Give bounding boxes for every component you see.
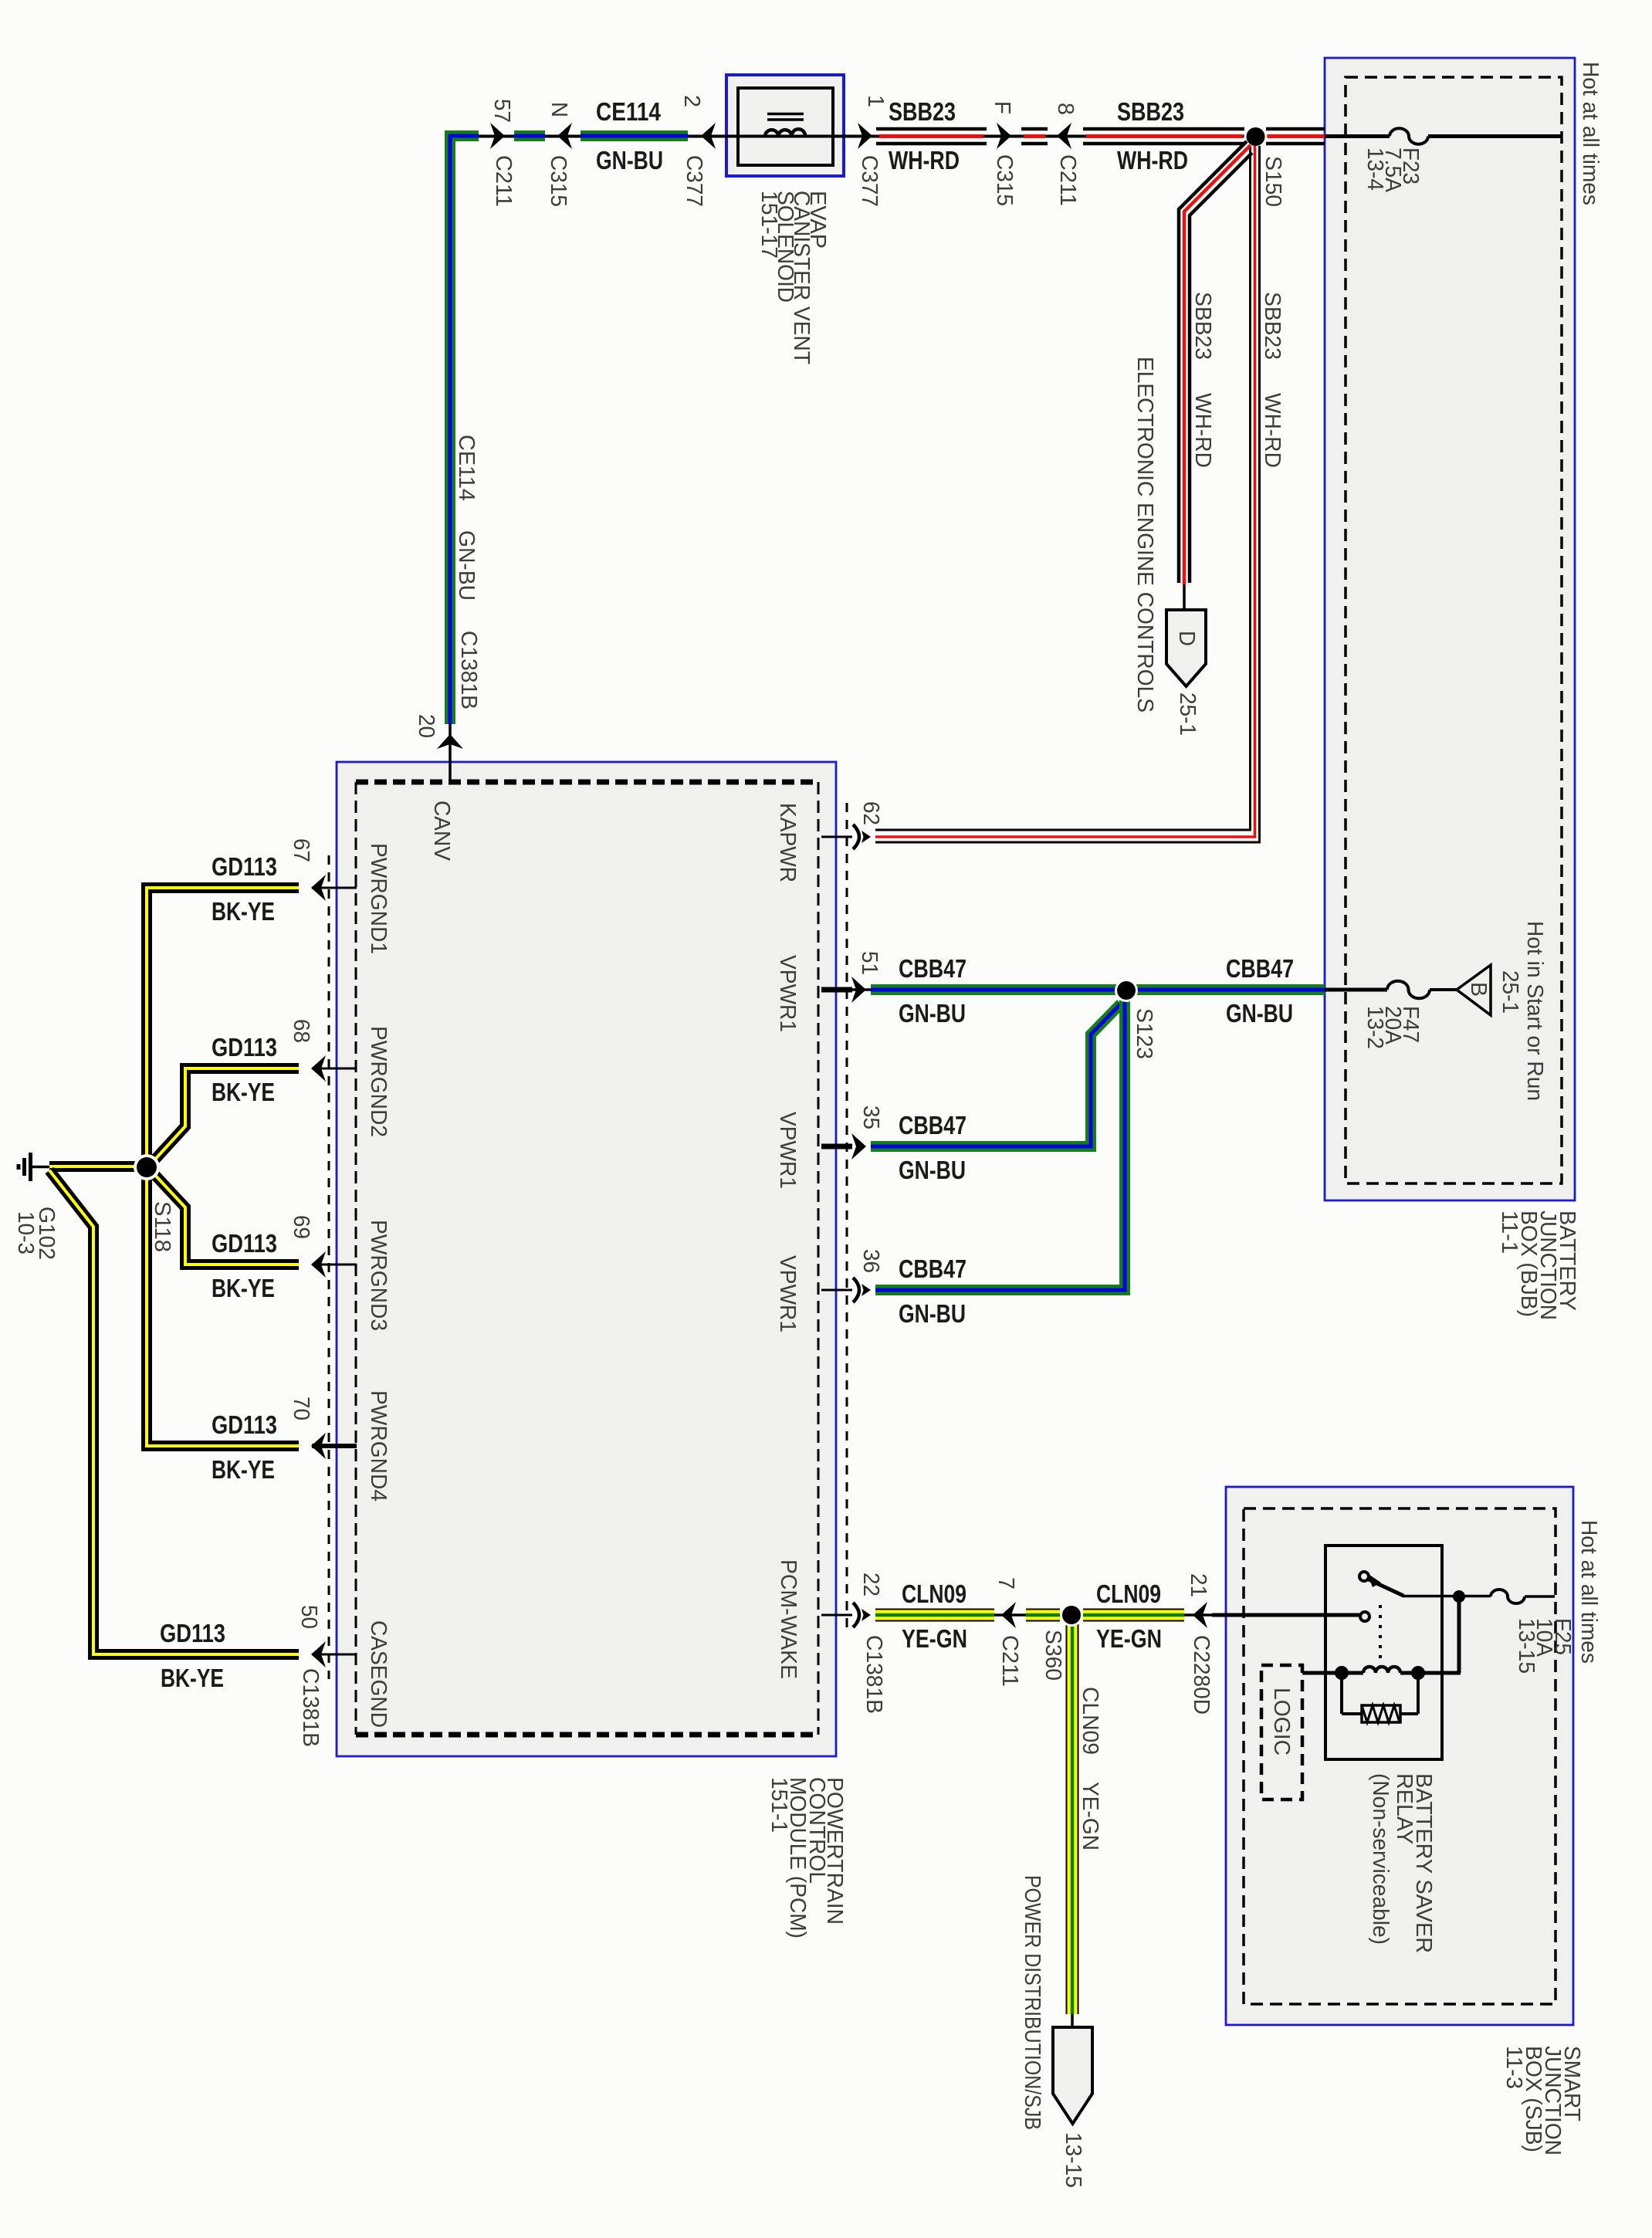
label C1381B (rotated) xyxy=(456,631,481,709)
svg-text:KAPWR: KAPWR xyxy=(775,803,800,882)
label F47 (rotated) xyxy=(1398,1006,1423,1043)
svg-text:SBB23: SBB23 xyxy=(889,97,956,126)
svg-text:C377: C377 xyxy=(857,155,882,207)
label S123 (rotated) xyxy=(1132,1008,1156,1059)
label 57 (rotated) xyxy=(489,99,514,123)
svg-text:10-3: 10-3 xyxy=(13,1211,38,1254)
relay coil wire from LOGIC xyxy=(1302,1671,1461,1675)
relay switch common contact xyxy=(1359,1572,1403,1596)
PCM pin 35 stub xyxy=(821,1144,852,1149)
label SBB23 (rotated) xyxy=(1190,292,1215,360)
svg-text:PWRGND1: PWRGND1 xyxy=(366,843,391,954)
PCM pin 22 connector symbol xyxy=(853,1603,871,1627)
svg-text:62: 62 xyxy=(858,801,883,825)
label GD113 xyxy=(212,1229,277,1258)
svg-text:7: 7 xyxy=(994,1577,1018,1590)
svg-text:CBB47: CBB47 xyxy=(1226,954,1294,983)
label CBB47 xyxy=(899,1111,966,1139)
label S360 (rotated) xyxy=(1041,1630,1065,1681)
svg-text:67: 67 xyxy=(289,838,313,862)
svg-text:D: D xyxy=(1174,631,1199,646)
PCM pin 70 stub xyxy=(312,1444,357,1448)
label S150 (rotated) xyxy=(1261,156,1285,207)
label EVAP (rotated) xyxy=(805,191,830,249)
label BK-YE xyxy=(161,1664,224,1692)
svg-text:CBB47: CBB47 xyxy=(899,1254,966,1283)
svg-text:C377: C377 xyxy=(682,155,706,207)
label GD113 xyxy=(212,852,277,881)
connector C211 pin 8 arrow xyxy=(1057,123,1071,149)
svg-text:70: 70 xyxy=(289,1397,313,1420)
powertrain control module (PCM) outline xyxy=(337,762,836,1756)
splice S123 xyxy=(1115,979,1138,1002)
label 10A (rotated) xyxy=(1532,1618,1556,1657)
label YE-GN xyxy=(1096,1624,1162,1653)
label C315 (rotated) xyxy=(992,154,1017,206)
PCM pin 20 arrow xyxy=(437,734,463,749)
svg-text:GD113: GD113 xyxy=(212,1033,277,1061)
svg-text:13-2: 13-2 xyxy=(1363,1006,1387,1049)
label C1381B (rotated) xyxy=(862,1635,886,1714)
svg-text:GN-BU: GN-BU xyxy=(1226,999,1293,1028)
svg-text:GD113: GD113 xyxy=(212,1229,277,1258)
label BK-YE xyxy=(212,897,275,926)
svg-text:2: 2 xyxy=(679,95,704,107)
label F25 (rotated) xyxy=(1550,1618,1575,1655)
label VPWR1 (rotated) xyxy=(775,1255,800,1332)
svg-text:CASEGND: CASEGND xyxy=(366,1620,391,1728)
PCM pin 50 arrow xyxy=(311,1641,326,1667)
label Hot at all times (rotated) xyxy=(1576,1520,1601,1664)
label SBB23 xyxy=(889,97,956,126)
svg-text:CLN09: CLN09 xyxy=(902,1579,966,1608)
solenoid coil L1 xyxy=(765,114,805,137)
wire SBB23 WH-RD C377 to C315 xyxy=(876,129,987,144)
label SBB23 xyxy=(1117,97,1184,126)
svg-text:GN-BU: GN-BU xyxy=(454,530,479,601)
ground G102 symbol xyxy=(19,1153,49,1181)
label 35 (rotated) xyxy=(858,1105,883,1129)
svg-text:8: 8 xyxy=(1053,103,1078,115)
wire SBB23 WH-RD C211 to S150 xyxy=(1083,129,1244,144)
relay resistor xyxy=(1342,1673,1418,1722)
svg-text:36: 36 xyxy=(858,1249,883,1273)
svg-text:BK-YE: BK-YE xyxy=(212,1274,275,1302)
label PWRGND3 (rotated) xyxy=(366,1220,391,1331)
svg-text:PCM-WAKE: PCM-WAKE xyxy=(776,1559,801,1679)
label CLN09 (rotated) xyxy=(1078,1687,1102,1755)
label 22 (rotated) xyxy=(858,1573,883,1596)
svg-text:151-1: 151-1 xyxy=(767,1777,791,1833)
svg-text:N: N xyxy=(547,102,571,117)
wire BJB F47 feed xyxy=(1325,988,1458,992)
svg-text:POWER DISTRIBUTION/SJB: POWER DISTRIBUTION/SJB xyxy=(1020,1875,1044,2130)
label 36 (rotated) xyxy=(858,1249,883,1273)
svg-text:GN-BU: GN-BU xyxy=(596,146,663,174)
battery junction box (BJB) outline xyxy=(1325,58,1575,1200)
connector C377 pin 2 arrow xyxy=(701,123,716,149)
svg-text:VPWR1: VPWR1 xyxy=(775,1255,800,1332)
label C315 (rotated) xyxy=(546,155,570,207)
svg-text:Hot at all times: Hot at all times xyxy=(1578,62,1603,205)
label VPWR1 (rotated) xyxy=(775,1112,800,1189)
svg-text:CLN09: CLN09 xyxy=(1078,1687,1102,1755)
label 13-4 (rotated) xyxy=(1363,147,1387,191)
label CBB47 xyxy=(1226,954,1294,983)
relay normally-open contact xyxy=(1360,1612,1369,1621)
wire SJB battery saver relay to pin 21 xyxy=(1212,1613,1360,1617)
svg-text:57: 57 xyxy=(489,99,514,123)
wire SBB23 WH-RD S150 to PCM KAPWR pin 62 xyxy=(875,146,1260,842)
label 8 (rotated) xyxy=(1053,103,1078,115)
label 20A (rotated) xyxy=(1380,1006,1405,1045)
wire CLN09 YE-GN C211 to S360 xyxy=(1026,1609,1060,1622)
relay coil feed vertical xyxy=(1457,1596,1461,1673)
svg-text:BK-YE: BK-YE xyxy=(212,897,275,926)
label 69 (rotated) xyxy=(289,1215,313,1239)
label C1381B (rotated) xyxy=(298,1668,323,1747)
label C377 (rotated) xyxy=(682,155,706,207)
label RELAY (rotated) xyxy=(1392,1773,1417,1844)
PCM pin 36 stub xyxy=(821,1289,852,1292)
label GN-BU xyxy=(1226,999,1293,1028)
svg-text:CE114: CE114 xyxy=(596,97,662,126)
svg-text:(Non-serviceable): (Non-serviceable) xyxy=(1368,1773,1393,1945)
label YE-GN (rotated) xyxy=(1078,1782,1102,1850)
svg-text:YE-GN: YE-GN xyxy=(1078,1782,1102,1850)
label (Non-serviceable) (rotated) xyxy=(1368,1773,1393,1945)
label 67 (rotated) xyxy=(289,838,313,862)
label CANISTER VENT (rotated) xyxy=(789,191,814,364)
PCM pin 62 connector symbol xyxy=(853,824,871,849)
svg-text:S123: S123 xyxy=(1132,1008,1156,1059)
PCM pin 51 stub xyxy=(821,987,852,993)
svg-text:GN-BU: GN-BU xyxy=(899,1156,966,1184)
label GN-BU xyxy=(899,1299,966,1328)
svg-text:CE114: CE114 xyxy=(454,435,479,501)
svg-text:68: 68 xyxy=(289,1019,313,1043)
connector C315 pin N arrow xyxy=(557,123,572,149)
svg-text:21: 21 xyxy=(1186,1573,1210,1597)
label GD113 xyxy=(212,1410,277,1439)
svg-text:CLN09: CLN09 xyxy=(1096,1579,1161,1608)
PCM connector dashed line left C1381B xyxy=(328,855,330,1679)
label N (rotated) xyxy=(547,102,571,117)
label GN-BU (rotated) xyxy=(454,530,479,601)
label S118 (rotated) xyxy=(150,1201,174,1252)
wire SBB23 WH-RD S150 to BJB xyxy=(1266,129,1325,144)
svg-text:1: 1 xyxy=(863,95,888,107)
label 20 (rotated) xyxy=(414,714,438,738)
label D (rotated) xyxy=(1174,631,1199,646)
svg-text:C2280D: C2280D xyxy=(1189,1635,1214,1715)
PCM pin 36 connector symbol xyxy=(853,1278,871,1302)
svg-text:25-1: 25-1 xyxy=(1175,692,1200,736)
svg-text:CANV: CANV xyxy=(429,801,454,862)
svg-text:11-3: 11-3 xyxy=(1501,2046,1526,2089)
label CBB47 xyxy=(899,954,966,983)
label LOGIC (rotated) xyxy=(1269,1688,1294,1756)
svg-text:GN-BU: GN-BU xyxy=(899,999,966,1028)
label 11-1 (rotated) xyxy=(1497,1210,1522,1254)
relay coil right dot xyxy=(1411,1666,1425,1680)
svg-text:B: B xyxy=(1466,982,1491,997)
label Hot at all times (rotated) xyxy=(1578,62,1603,205)
label PWRGND2 (rotated) xyxy=(366,1026,391,1137)
label SMART (rotated) xyxy=(1559,2046,1584,2121)
svg-text:BK-YE: BK-YE xyxy=(212,1078,275,1106)
svg-text:20: 20 xyxy=(414,714,438,738)
svg-text:C1381B: C1381B xyxy=(298,1668,323,1747)
svg-text:13-15: 13-15 xyxy=(1061,2132,1085,2188)
label GN-BU xyxy=(899,1156,966,1184)
svg-text:S118: S118 xyxy=(150,1201,174,1252)
label 2 (rotated) xyxy=(679,95,704,107)
label 13-15 (rotated) xyxy=(1514,1618,1539,1674)
EVAP canister vent solenoid box xyxy=(726,75,844,176)
svg-text:51: 51 xyxy=(857,951,882,975)
PCM pin 69 arrow xyxy=(311,1251,326,1278)
label PWRGND4 (rotated) xyxy=(366,1390,391,1502)
PCM connector dashed line right C1381B xyxy=(846,803,848,1630)
wire CBB47 GN-BU pin 51 to BJB via S123 xyxy=(871,984,1325,995)
label 151-17 (rotated) xyxy=(757,191,781,259)
label 13-2 (rotated) xyxy=(1363,1006,1387,1049)
label BOX (BJB) (rotated) xyxy=(1516,1210,1541,1317)
svg-text:S360: S360 xyxy=(1041,1630,1065,1681)
svg-text:CBB47: CBB47 xyxy=(899,954,966,983)
label WH-RD xyxy=(1117,146,1188,174)
PCM pin 70 arrow xyxy=(311,1433,326,1459)
label Hot in Start or Run (rotated) xyxy=(1522,921,1547,1101)
label JUNCTION (rotated) xyxy=(1535,1210,1560,1320)
label 62 (rotated) xyxy=(858,801,883,825)
connector C211 pin 7 arrow xyxy=(994,1602,1026,1628)
fuse F47 20A xyxy=(1387,981,1430,999)
label C211 (rotated) xyxy=(1055,154,1080,206)
label 68 (rotated) xyxy=(289,1019,313,1043)
wire CBB47 GN-BU pin 35 to S123 xyxy=(871,1004,1121,1146)
svg-text:Hot in Start or Run: Hot in Start or Run xyxy=(1522,921,1547,1101)
svg-text:50: 50 xyxy=(296,1605,321,1629)
label CANV (rotated) xyxy=(429,801,454,862)
label F23 (rotated) xyxy=(1398,147,1423,185)
label B (rotated) xyxy=(1466,982,1491,997)
label 25-1 (rotated) xyxy=(1175,692,1200,736)
label ELECTRONIC ENGINE CONTROLS (rotated) xyxy=(1132,357,1157,713)
svg-text:GD113: GD113 xyxy=(212,852,277,881)
label BOX (SJB) (rotated) xyxy=(1521,2046,1545,2152)
PCM pin 68 arrow xyxy=(311,1055,326,1082)
label 51 (rotated) xyxy=(857,951,882,975)
svg-text:C1381B: C1381B xyxy=(862,1635,886,1714)
PCM pin 51 arrow xyxy=(851,977,866,1003)
label 70 (rotated) xyxy=(289,1397,313,1420)
fuse F25 10A xyxy=(1491,1590,1555,1603)
wire GD113 BK-YE S118 to PWRGND3 pin 69 xyxy=(152,1172,299,1265)
relay armature dotted link xyxy=(1379,1605,1382,1666)
label C2280D (rotated) xyxy=(1189,1635,1214,1715)
label BK-YE xyxy=(212,1274,275,1302)
svg-text:C1381B: C1381B xyxy=(456,631,481,709)
wire GD113 BK-YE G102 to S118 xyxy=(49,1161,143,1172)
wire SBB23 WH-RD C315 to C211 xyxy=(1021,129,1048,144)
svg-text:Hot at all times: Hot at all times xyxy=(1576,1520,1601,1664)
svg-text:LOGIC: LOGIC xyxy=(1269,1688,1294,1756)
svg-text:PWRGND3: PWRGND3 xyxy=(366,1220,391,1331)
connector C377 pin 1 arrow xyxy=(858,123,872,149)
label WH-RD (rotated) xyxy=(1260,393,1285,468)
PCM pin 67 arrow xyxy=(311,875,326,901)
relay coil left dot xyxy=(1335,1666,1349,1680)
label POWERTRAIN (rotated) xyxy=(822,1777,847,1925)
svg-text:WH-RD: WH-RD xyxy=(1117,146,1188,174)
label CONTROL (rotated) xyxy=(804,1777,829,1884)
svg-text:SBB23: SBB23 xyxy=(1260,292,1285,360)
svg-text:25-1: 25-1 xyxy=(1498,970,1522,1014)
svg-text:SBB23: SBB23 xyxy=(1117,97,1184,126)
label GD113 xyxy=(160,1619,225,1647)
svg-text:SBB23: SBB23 xyxy=(1190,292,1215,360)
label CASEGND (rotated) xyxy=(366,1620,391,1728)
PCM pin 35 arrow xyxy=(851,1133,866,1160)
label BATTERY SAVER (rotated) xyxy=(1411,1773,1436,1953)
splice S118 xyxy=(134,1154,160,1180)
label 21 (rotated) xyxy=(1186,1573,1210,1597)
label WH-RD (rotated) xyxy=(1190,393,1215,468)
label 13-15 (rotated) xyxy=(1061,2132,1085,2188)
label C211 (rotated) xyxy=(997,1635,1022,1687)
svg-text:YE-GN: YE-GN xyxy=(902,1624,967,1653)
svg-text:BK-YE: BK-YE xyxy=(212,1455,275,1484)
label 1 (rotated) xyxy=(863,95,888,107)
label GN-BU xyxy=(596,146,663,174)
wire SBB23 WH-RD S150 to electronic engine controls xyxy=(1179,141,1252,611)
label MODULE (PCM) (rotated) xyxy=(785,1777,810,1938)
svg-text:C211: C211 xyxy=(1055,154,1080,206)
wire GD113 BK-YE S118 to PWRGND2 pin 68 xyxy=(152,1068,299,1163)
label CLN09 xyxy=(902,1579,966,1608)
off-page connector D to 25-1 xyxy=(1166,610,1206,686)
wire CLN09 YE-GN pin 22 to C211 xyxy=(875,1609,994,1622)
label 50 (rotated) xyxy=(296,1605,321,1629)
battery saver relay box xyxy=(1325,1546,1442,1759)
label BK-YE xyxy=(212,1078,275,1106)
svg-text:RELAY: RELAY xyxy=(1392,1773,1417,1844)
svg-text:35: 35 xyxy=(858,1105,883,1129)
svg-text:WH-RD: WH-RD xyxy=(1190,393,1215,468)
wire CE114 GN-BU between C211 and C315 xyxy=(514,130,545,141)
wire BJB F23 feed xyxy=(1325,134,1562,138)
label GD113 xyxy=(212,1033,277,1061)
label SOLENOID (rotated) xyxy=(773,191,797,303)
svg-text:F: F xyxy=(990,101,1014,114)
PCM pin 69 stub xyxy=(312,1264,357,1266)
svg-text:YE-GN: YE-GN xyxy=(1096,1624,1162,1653)
wire CE114 GN-BU from C1381B to C211 xyxy=(450,136,479,724)
relay switch junction dot xyxy=(1453,1590,1465,1603)
label C377 (rotated) xyxy=(857,155,882,207)
LOGIC box xyxy=(1261,1665,1302,1800)
wire CE114 pin 20 stub xyxy=(449,724,452,782)
label CE114 xyxy=(596,97,662,126)
wire CLN09 YE-GN S360 to C2280D xyxy=(1083,1609,1184,1622)
off-page connector power distribution 13-15 xyxy=(1053,2027,1092,2124)
label SBB23 (rotated) xyxy=(1260,292,1285,360)
wire CLN09 YE-GN S360 to power distribution xyxy=(1066,1624,1079,2029)
PCM pin 22 stub xyxy=(821,1614,852,1617)
label CBB47 xyxy=(899,1254,966,1283)
label PCM-WAKE (rotated) xyxy=(776,1559,801,1679)
connector C315 pin F arrow xyxy=(997,123,1011,149)
svg-text:22: 22 xyxy=(858,1573,883,1596)
label 25-1 (rotated) xyxy=(1498,970,1522,1014)
label 7 (rotated) xyxy=(994,1577,1018,1590)
label JUNCTION (rotated) xyxy=(1540,2046,1565,2155)
svg-text:151-17: 151-17 xyxy=(757,191,781,259)
label CE114 (rotated) xyxy=(454,435,479,501)
label BK-YE xyxy=(212,1455,275,1484)
label F (rotated) xyxy=(990,101,1014,114)
relay switch to fuse F25 wire xyxy=(1403,1595,1491,1598)
svg-text:PWRGND2: PWRGND2 xyxy=(366,1026,391,1137)
splice S360 xyxy=(1060,1603,1083,1627)
svg-text:C315: C315 xyxy=(992,154,1017,206)
svg-text:13-4: 13-4 xyxy=(1363,147,1387,191)
label POWER DISTRIBUTION/SJB (rotated) xyxy=(1020,1875,1044,2130)
label KAPWR (rotated) xyxy=(775,803,800,882)
label CLN09 xyxy=(1096,1579,1161,1608)
wire GD113 BK-YE ground trunk to PWRGND1 and PWRGND4 xyxy=(147,888,299,1446)
svg-text:GD113: GD113 xyxy=(160,1619,225,1647)
PCM pin 67 stub xyxy=(312,887,357,889)
label 11-3 (rotated) xyxy=(1501,2046,1526,2089)
smart junction box (SJB) outline xyxy=(1226,1487,1573,2025)
fuse F23 7.5A xyxy=(1390,128,1428,144)
label VPWR1 (rotated) xyxy=(775,955,800,1032)
svg-text:CBB47: CBB47 xyxy=(899,1111,966,1139)
label 7.5A (rotated) xyxy=(1380,147,1405,193)
label C211 (rotated) xyxy=(491,155,516,207)
connector C211 pin 57 arrow xyxy=(490,123,505,149)
svg-text:BK-YE: BK-YE xyxy=(161,1664,224,1692)
wire CBB47 GN-BU pin 36 to S123 xyxy=(875,1000,1125,1290)
svg-text:PWRGND4: PWRGND4 xyxy=(366,1390,391,1502)
connector C2280D pin 21 arrow xyxy=(1184,1602,1212,1628)
svg-text:GD113: GD113 xyxy=(212,1410,277,1439)
off-page triangle B Hot in Start or Run xyxy=(1457,965,1491,1015)
svg-text:VPWR1: VPWR1 xyxy=(775,955,800,1032)
svg-text:11-1: 11-1 xyxy=(1497,1210,1522,1254)
label 151-1 (rotated) xyxy=(767,1777,791,1833)
svg-text:WH-RD: WH-RD xyxy=(1260,393,1285,468)
PCM pin 62 stub xyxy=(821,836,852,838)
splice S150 xyxy=(1244,125,1268,148)
label WH-RD xyxy=(889,146,960,174)
PCM pin 68 stub xyxy=(312,1068,357,1070)
label BATTERY (rotated) xyxy=(1555,1210,1579,1311)
PCM pin 50 stub xyxy=(312,1654,357,1656)
label PWRGND1 (rotated) xyxy=(366,843,391,954)
svg-text:C211: C211 xyxy=(491,155,516,207)
svg-text:GN-BU: GN-BU xyxy=(899,1299,966,1328)
label 10-3 (rotated) xyxy=(13,1211,38,1254)
label G102 (rotated) xyxy=(34,1207,59,1260)
svg-text:WH-RD: WH-RD xyxy=(889,146,960,174)
wire top row base line xyxy=(455,135,1325,138)
svg-text:69: 69 xyxy=(289,1215,313,1239)
label YE-GN xyxy=(902,1624,967,1653)
